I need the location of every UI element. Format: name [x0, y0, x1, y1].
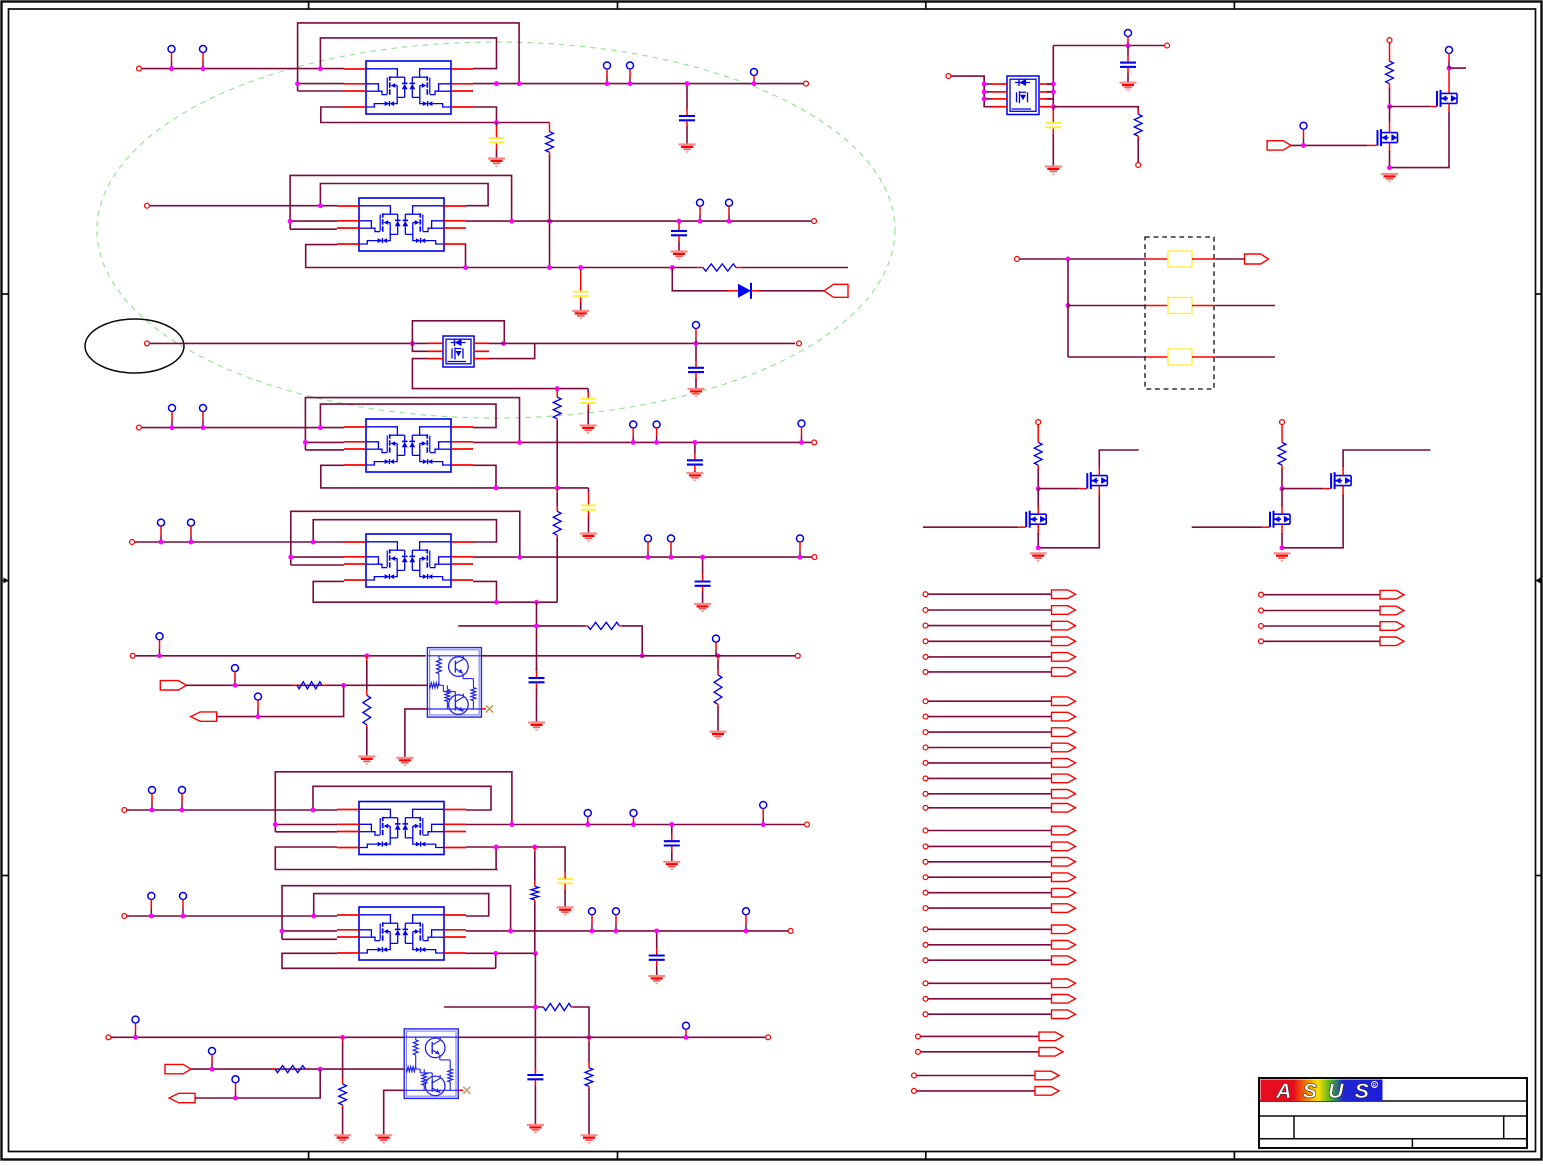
- wire Q4 inner loop: [320, 404, 496, 428]
- signal net L5: [923, 653, 1075, 662]
- junction row7 o1: [509, 822, 514, 827]
- pullup via P39: [1300, 122, 1307, 145]
- pullup via P12: [653, 421, 660, 442]
- terminal row6 output: [795, 653, 800, 658]
- wire branch corner 9: [573, 1007, 589, 1037]
- ground tr: [1381, 174, 1398, 181]
- wire row9 right: [458, 1036, 765, 1038]
- junction row1 o2: [517, 81, 522, 86]
- wire LS high source A: [1038, 490, 1099, 548]
- wire LS gate link B: [1282, 488, 1331, 490]
- diode D1: [738, 283, 751, 299]
- junction Q3 o1: [501, 341, 506, 346]
- no-connect X2: [463, 1087, 470, 1094]
- wire in5: [195, 1069, 320, 1098]
- wire net row2 input: [150, 205, 337, 207]
- pullup via P34: [209, 1048, 216, 1070]
- wire row6 branch: [458, 625, 585, 627]
- wire row2 bus tail: [742, 267, 848, 269]
- wire Q4 R4 drop: [473, 465, 496, 488]
- wire LS low source B: [1281, 528, 1283, 548]
- junction in2 a: [233, 683, 238, 688]
- capacitor C3: [671, 221, 688, 259]
- dual mosfet Q5: [344, 534, 473, 587]
- black callout ellipse: [85, 319, 184, 373]
- junction bus602 a: [494, 600, 499, 605]
- wire Q5 pin3 row: [291, 564, 344, 566]
- wire net row7 output: [466, 824, 804, 826]
- junction Q2 L2: [288, 219, 293, 224]
- ground LS A: [1030, 553, 1047, 560]
- junction row4 o3: [654, 440, 659, 445]
- wire tr gate link: [1390, 106, 1438, 108]
- wire Q2 inner loop: [320, 184, 488, 206]
- terminal LS top B: [1280, 420, 1285, 425]
- signal net L26: [916, 1048, 1063, 1057]
- signal net L15: [923, 826, 1075, 835]
- junction tr gate2: [1301, 143, 1306, 148]
- wire Q5 inner loop: [313, 520, 496, 542]
- resistor R6: [292, 682, 327, 689]
- wire Q4 pin3 row: [305, 449, 344, 451]
- resistor R7: [585, 622, 622, 629]
- junction row4 o2: [631, 440, 636, 445]
- signal net L16: [923, 842, 1075, 851]
- wire tr gate2: [1291, 144, 1376, 146]
- wire Q5 outer loop: [291, 511, 520, 565]
- junction tm L1: [982, 82, 987, 87]
- junction row1 c1: [685, 81, 690, 86]
- title block: [1259, 1078, 1527, 1148]
- pullup via P7: [726, 199, 733, 221]
- pullup via P20: [232, 665, 239, 686]
- wire Q6 pin3 row: [275, 831, 337, 833]
- junction tm R2: [1051, 89, 1056, 94]
- pullup via P10: [200, 405, 207, 428]
- signal net L4: [923, 637, 1075, 646]
- wire tm R2: [1047, 91, 1054, 93]
- junction row2 c3: [677, 219, 682, 224]
- capacitor C16 bulk: [1045, 107, 1062, 174]
- wire Q3 R3 step: [489, 343, 535, 358]
- resistor R12: [272, 1066, 308, 1073]
- capacitor C2 bulk: [488, 123, 505, 166]
- capacitor C7: [686, 442, 703, 480]
- junction row8 c13: [654, 928, 659, 933]
- signal net L1: [923, 590, 1075, 599]
- wire tr q9 source: [1390, 107, 1450, 167]
- junction row2 diode tap: [670, 265, 675, 270]
- junction Q5 L2: [288, 555, 293, 560]
- wire Q5 R4 drop: [473, 581, 497, 602]
- resistor R4 chain: [553, 488, 561, 602]
- junction row8 o4: [744, 928, 749, 933]
- terminal tm top: [1165, 43, 1170, 48]
- capacitor C6: [688, 343, 705, 396]
- signal net L13: [923, 790, 1075, 799]
- junction Q7 in: [311, 914, 316, 919]
- wire Q4 pin2 row: [305, 441, 344, 443]
- wire Q4 outer loop: [305, 398, 519, 450]
- junction Q6 L2: [273, 822, 278, 827]
- pullup via P2: [200, 46, 207, 69]
- junction row9 b: [340, 1035, 345, 1040]
- pullup via P28: [148, 893, 155, 917]
- junction row5 o4: [798, 555, 803, 560]
- wire net row8 output: [466, 930, 788, 932]
- signal net L26: [923, 1010, 1075, 1019]
- junction row7 o2: [585, 822, 590, 827]
- wire diode stub left: [727, 290, 738, 292]
- wire net row9 main: [111, 1036, 404, 1038]
- signal net L6: [923, 668, 1075, 677]
- pullup via P16: [645, 535, 652, 557]
- pullup via P5: [751, 69, 758, 84]
- wire net row1 input: [142, 68, 344, 70]
- wire QP1 emitter: [405, 709, 428, 758]
- capacitor C10: [528, 668, 545, 730]
- junction row8 r4 b: [533, 951, 538, 956]
- wire Q7 R4 drop: [495, 953, 497, 968]
- junction row1 o3: [605, 81, 610, 86]
- dual transistor QP2: [404, 1029, 458, 1099]
- terminal LS top A: [1036, 420, 1041, 425]
- wire fuse row2 feed: [1068, 305, 1145, 307]
- signal net L27: [912, 1071, 1059, 1080]
- junction row7 b: [180, 808, 185, 813]
- pullup via P24: [179, 787, 186, 811]
- terminal row5 output: [812, 555, 817, 560]
- signal net L25: [916, 1032, 1063, 1041]
- terminal fuse input: [1015, 257, 1020, 262]
- junction R1 row2: [547, 219, 552, 224]
- resistor R11 pulldown: [339, 1037, 347, 1135]
- wire row9 branch: [444, 1006, 543, 1008]
- wire tm R1: [1047, 83, 1054, 85]
- wire LS high source B: [1282, 490, 1343, 548]
- capacitor C15: [1120, 46, 1137, 91]
- signal net R1: [1259, 590, 1404, 599]
- pullup via P31: [613, 908, 620, 931]
- junction in5 a: [233, 1096, 238, 1101]
- junction row3 c6: [694, 341, 699, 346]
- dual mosfet Q7: [337, 907, 466, 960]
- resistor R14: [1134, 110, 1142, 162]
- no-connect X1: [486, 705, 493, 712]
- signal net L12: [923, 774, 1075, 783]
- junction row4 c7: [692, 440, 697, 445]
- pullup via P17: [668, 535, 675, 557]
- wire Q7 pin3 row: [282, 938, 337, 940]
- signal net L28: [912, 1087, 1059, 1096]
- wire Q2 outer loop: [290, 175, 512, 229]
- wire Q6 outer loop: [275, 772, 512, 832]
- pullup via P21: [255, 693, 262, 717]
- junction row5 c9: [700, 555, 705, 560]
- wire net row6 main: [136, 655, 426, 657]
- junction row8 o3: [614, 928, 619, 933]
- signal net L20: [923, 904, 1075, 913]
- signal net L23: [923, 956, 1075, 965]
- wire Q6 inner loop: [313, 786, 491, 810]
- junction tr drain: [1447, 66, 1452, 71]
- connector arrow IN4: [165, 1064, 191, 1073]
- terminal tm input: [946, 74, 951, 79]
- junction row2 o3: [727, 219, 732, 224]
- mosfet LS low B: [1270, 510, 1290, 528]
- terminal row6 input: [130, 653, 135, 658]
- terminal row4 input: [137, 425, 142, 430]
- junction row8 r4 a: [493, 951, 498, 956]
- junction tm top: [1126, 43, 1131, 48]
- pullup via P29: [180, 893, 187, 917]
- wire net row8 input: [127, 915, 337, 917]
- mosfet Q10: [1378, 129, 1398, 147]
- junction row5 a: [159, 540, 164, 545]
- junction tm R1: [1051, 82, 1056, 87]
- junction row7 a: [150, 808, 155, 813]
- svg-text:R: R: [1373, 1083, 1377, 1089]
- capacitor C12 bulk: [557, 871, 574, 915]
- signal net L10: [923, 743, 1075, 752]
- junction in3 a: [256, 714, 261, 719]
- junction Q4 in: [318, 425, 323, 430]
- capacitor C9: [694, 557, 711, 611]
- wire Q6 R4 drop: [495, 847, 497, 870]
- single mosfet Q8: [992, 76, 1054, 115]
- wire QP2 emitter: [384, 1090, 405, 1135]
- junction tm L2: [982, 89, 987, 94]
- junction row5 o1: [517, 555, 522, 560]
- junction row9 c: [587, 1035, 592, 1040]
- junction in4 b: [318, 1067, 323, 1072]
- pullup via P8: [693, 322, 700, 344]
- pullup via P14: [158, 519, 165, 542]
- wire Q1 pin2 row: [298, 83, 344, 85]
- pullup via P25: [584, 810, 591, 825]
- junction row1 bus: [494, 120, 499, 125]
- junction row3 in: [410, 341, 415, 346]
- capacitor C5 bulk: [580, 389, 597, 433]
- junction row5 b: [189, 540, 194, 545]
- junction row9 d: [684, 1035, 689, 1040]
- terminal row7 output: [804, 822, 809, 827]
- junction row7 o4: [761, 822, 766, 827]
- junction row1 b: [201, 66, 206, 71]
- signal net L25: [923, 995, 1075, 1004]
- signal net L8: [923, 712, 1075, 721]
- junction branch a: [534, 623, 539, 628]
- wire tm L1: [984, 83, 992, 85]
- wire cap drop: [536, 602, 538, 671]
- junction row1 o1: [494, 81, 499, 86]
- connector arrow IN2: [160, 681, 186, 690]
- wire net row2 output: [466, 220, 811, 222]
- dashed component box: [1145, 237, 1214, 389]
- ground LS B: [1274, 553, 1291, 560]
- junction row2 bus c: [578, 265, 583, 270]
- junction row1 a: [169, 66, 174, 71]
- capacitor C14: [527, 1068, 544, 1133]
- resistor R13 pulldown: [585, 1037, 593, 1135]
- dual mosfet Q2: [337, 198, 466, 251]
- pullup via P22: [713, 635, 720, 656]
- wire Q3 top loop: [412, 321, 504, 352]
- wire Q1 R4 drop: [473, 107, 497, 123]
- junction branch row9: [533, 1005, 538, 1010]
- signal net L7: [923, 697, 1075, 706]
- junction bus388 a: [555, 386, 560, 391]
- junction Q7 L2: [280, 928, 285, 933]
- dual mosfet Q1: [344, 61, 473, 114]
- wire Q7 inner loop: [314, 894, 489, 916]
- wire tr q10 drain: [1389, 107, 1391, 129]
- wire tm L2: [984, 91, 992, 93]
- pullup via P13: [798, 420, 805, 442]
- signal net R2: [1259, 606, 1404, 615]
- junction row6 a: [157, 653, 162, 658]
- wire Q7 bottom loop: [282, 953, 496, 968]
- ground QP1: [396, 758, 413, 765]
- wire LS gate2 B: [1192, 526, 1270, 528]
- wire Q7 outer loop: [282, 886, 511, 940]
- wire fuse feed: [1020, 258, 1145, 260]
- wire in3: [217, 685, 344, 716]
- wire diode to connector: [759, 290, 824, 292]
- terminal row9 input: [106, 1035, 111, 1040]
- wire chain to row9: [534, 953, 536, 1071]
- wire Q6 bottom loop: [275, 847, 497, 870]
- pullup via P38: [1446, 47, 1453, 69]
- wire net row4 output: [473, 441, 811, 443]
- terminal row2 input: [145, 203, 150, 208]
- wire tm right bus: [1052, 46, 1054, 107]
- junction Q4 L2: [303, 440, 308, 445]
- mosfet LS high B: [1331, 472, 1351, 490]
- junction in2 b: [341, 683, 346, 688]
- junction LS foot A: [1036, 545, 1041, 550]
- terminal row8 input: [122, 914, 127, 919]
- wire Q6 R4 row: [466, 847, 565, 872]
- connector arrow IN1: [824, 284, 848, 297]
- wire LS top A: [1099, 450, 1138, 472]
- junction Q5 in: [311, 540, 316, 545]
- junction row6 d: [716, 653, 721, 658]
- junction row8 b: [181, 914, 186, 919]
- resistor LS B: [1278, 425, 1286, 489]
- resistor R2: [697, 264, 742, 271]
- wire Q1 pin3 row: [298, 90, 344, 92]
- junction fuse a: [1066, 257, 1071, 262]
- pullup via P15: [188, 519, 195, 542]
- mosfet LS high A: [1087, 472, 1107, 490]
- wire Q4 bottom loop: [321, 465, 589, 488]
- signal net L11: [923, 759, 1075, 768]
- wire tr res lead: [1386, 43, 1394, 107]
- wire Q2 R4 drop: [464, 245, 467, 268]
- wire Q7 R4 row: [466, 952, 535, 954]
- junction bus488 a: [494, 485, 499, 490]
- wire net row3 output: [489, 342, 795, 344]
- pullup via P23: [149, 787, 156, 811]
- wire LS low drain A: [1037, 489, 1039, 511]
- fuse F3: [1145, 349, 1216, 365]
- pullup via P26: [630, 810, 637, 825]
- terminal row4 output: [812, 440, 817, 445]
- capacitor C8 bulk: [580, 488, 597, 541]
- wire row6 right: [481, 655, 795, 657]
- junction row4 o4: [799, 440, 804, 445]
- pullup via P9: [169, 405, 176, 428]
- wire Q3 L3 drop: [412, 359, 588, 389]
- junction row5 o2: [646, 555, 651, 560]
- terminal tm res: [1136, 163, 1141, 168]
- signal net L19: [923, 888, 1075, 897]
- junction row8 a: [149, 914, 154, 919]
- connector arrow OUT0: [1245, 254, 1269, 264]
- connector arrow IN6: [1267, 141, 1291, 150]
- capacitor C4 bulk: [572, 268, 589, 319]
- pullup via P37: [1125, 30, 1132, 46]
- junction row2 o2: [698, 219, 703, 224]
- junction row2 bus a: [463, 265, 468, 270]
- junction tm L3: [982, 96, 987, 101]
- junction row1 o4: [628, 81, 633, 86]
- wire net row1 output: [473, 83, 803, 85]
- mosfet Q9: [1437, 89, 1457, 107]
- terminal row5 input: [130, 540, 135, 545]
- green dashed highlight ellipse: [97, 42, 895, 418]
- terminal row2 output: [812, 219, 817, 224]
- junction LS foot B: [1280, 545, 1285, 550]
- border right center arrow: [1536, 578, 1542, 584]
- wire tm R3: [1047, 98, 1054, 100]
- signal net L9: [923, 728, 1075, 737]
- resistor R9 chain: [531, 847, 539, 953]
- wire in2: [186, 684, 427, 686]
- wire Q5 pin2 row: [291, 556, 344, 558]
- wire net row4 input: [142, 427, 344, 429]
- junction row7 r4 b: [532, 845, 537, 850]
- border left center arrow: [2, 578, 9, 584]
- junction row7 r4 a: [494, 845, 499, 850]
- ground row9 res: [334, 1135, 351, 1142]
- fuse F2: [1145, 298, 1216, 314]
- resistor R5 pulldown: [363, 656, 371, 757]
- wire diode stub right: [752, 290, 762, 292]
- wire tm R4 row: [1053, 107, 1138, 111]
- resistor R1 chain: [546, 123, 554, 268]
- junction row9 a: [133, 1035, 138, 1040]
- fuse F1: [1145, 251, 1216, 267]
- pullup via P1: [168, 46, 175, 69]
- junction row8 o2: [590, 928, 595, 933]
- terminal row8 output: [788, 928, 793, 933]
- capacitor C11: [663, 825, 680, 870]
- wire net row5 output: [473, 556, 812, 558]
- resistor R10: [543, 1003, 573, 1010]
- junction fuse b: [1066, 303, 1071, 308]
- wire fuse out3: [1216, 356, 1275, 358]
- dual transistor QP1: [427, 648, 481, 718]
- ground row9 res2: [581, 1135, 598, 1142]
- pullup via P27: [760, 802, 767, 825]
- wire Q6 pin2 row: [275, 824, 337, 826]
- signal net L22: [923, 941, 1075, 950]
- junction Q1 L2: [295, 81, 300, 86]
- wire net row3 input: [150, 342, 428, 344]
- terminal row1 input: [137, 66, 142, 71]
